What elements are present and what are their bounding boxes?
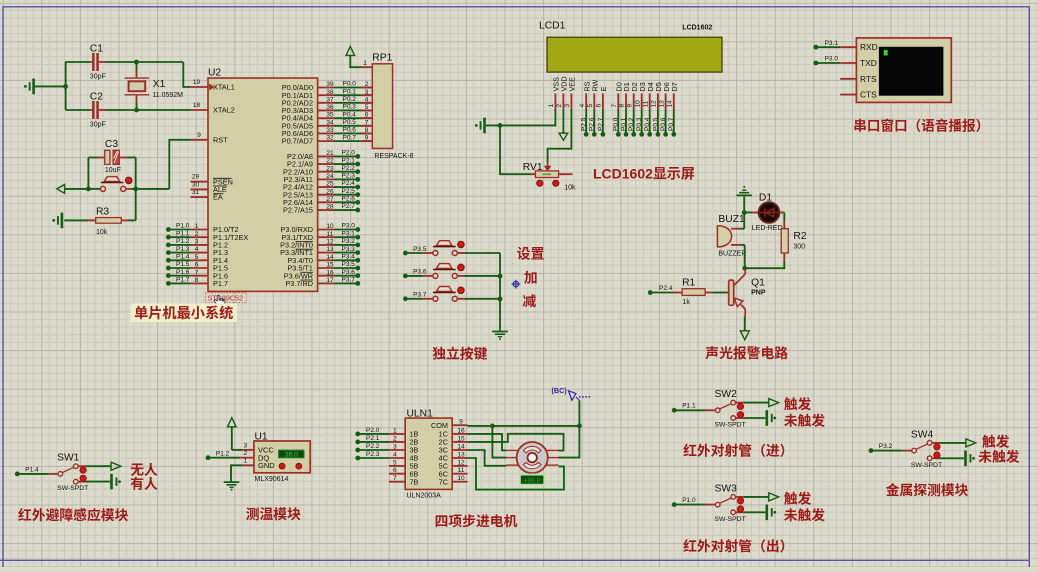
wire 1C bbox=[468, 434, 506, 451]
svg-text:10uF: 10uF bbox=[105, 165, 121, 175]
svg-text:P2.7: P2.7 bbox=[342, 200, 356, 210]
wire P2.2 (ULN input) bbox=[355, 440, 389, 452]
node (XTAL1 junction) bbox=[134, 60, 139, 65]
svg-text:CTS: CTS bbox=[860, 89, 877, 101]
node bbox=[133, 187, 138, 192]
node (XTAL2 junction) bbox=[134, 108, 139, 113]
wire bbox=[137, 62, 191, 87]
wire bbox=[135, 158, 137, 221]
wire 2C bbox=[468, 434, 564, 451]
U2 pin names bbox=[210, 83, 314, 289]
svg-text:P0.7/AD7: P0.7/AD7 bbox=[282, 137, 313, 147]
svg-text:LED-RED: LED-RED bbox=[752, 223, 783, 233]
svg-text:RP1: RP1 bbox=[372, 49, 392, 64]
svg-text:RXD: RXD bbox=[860, 41, 878, 53]
LCD1 display (LCD1602) bbox=[539, 17, 722, 73]
wire P0.3 bbox=[318, 101, 373, 111]
wire VSS to ground bbox=[486, 109, 556, 126]
svg-text:11.0592M: 11.0592M bbox=[152, 90, 183, 100]
switch SW2 (SW-SPDT) bbox=[672, 385, 825, 430]
svg-text:E: E bbox=[599, 87, 609, 92]
wire bbox=[232, 449, 254, 451]
svg-text:P3.5: P3.5 bbox=[413, 243, 427, 253]
wire P3.0 bbox=[318, 220, 361, 232]
wire P1.2 bbox=[166, 235, 208, 247]
pin EA stub bbox=[191, 196, 208, 198]
capacitor C2 bbox=[66, 88, 137, 130]
wire bbox=[191, 86, 208, 88]
wire P2.3 bbox=[318, 170, 361, 182]
wire P0.7 (LCD) bbox=[665, 109, 676, 137]
wire VEE to RV1 wiper bbox=[548, 109, 572, 163]
virtual terminal (serial window) bbox=[856, 38, 951, 103]
power terminal (RP1) bbox=[346, 46, 362, 67]
svg-text:PNP: PNP bbox=[751, 288, 766, 298]
svg-text:300: 300 bbox=[793, 242, 805, 252]
wire P0.4 bbox=[318, 108, 373, 118]
wire P1.1 bbox=[166, 227, 208, 239]
wire P0.7 bbox=[318, 131, 373, 141]
svg-text:R1: R1 bbox=[682, 274, 695, 289]
svg-text:P0.7: P0.7 bbox=[665, 117, 675, 131]
label 金属探测模块 bbox=[886, 479, 969, 499]
svg-text:红外避障感应模块: 红外避障感应模块 bbox=[18, 504, 129, 524]
wire GND (U1) bbox=[231, 465, 254, 481]
wire P2.1 (ULN input) bbox=[355, 432, 389, 444]
svg-text:P3.7: P3.7 bbox=[342, 274, 356, 284]
svg-text:SW-SPDT: SW-SPDT bbox=[715, 419, 746, 429]
wire P1.4 bbox=[166, 251, 208, 263]
svg-text:P2.3: P2.3 bbox=[366, 448, 380, 458]
motor angle display bbox=[520, 474, 545, 485]
label 减 bbox=[523, 290, 537, 310]
label LCD1602显示屏 bbox=[593, 164, 695, 184]
label 红外对射管（进） bbox=[683, 440, 793, 460]
wire P0.6 bbox=[318, 124, 373, 134]
svg-text:D1: D1 bbox=[759, 189, 772, 204]
buzzer BUZ1 bbox=[717, 210, 746, 259]
ground (R3) bbox=[52, 213, 63, 229]
node bbox=[498, 274, 503, 279]
svg-text:P1.4: P1.4 bbox=[25, 463, 39, 473]
terminal (emitter, down arrow) bbox=[740, 317, 749, 340]
svg-text:R2: R2 bbox=[793, 227, 806, 242]
svg-text:P3.0: P3.0 bbox=[825, 53, 839, 63]
power terminal (U1) bbox=[228, 418, 237, 450]
svg-text:未触发: 未触发 bbox=[784, 410, 826, 430]
resistor R3 bbox=[64, 203, 136, 238]
svg-text:P2.7: P2.7 bbox=[594, 117, 604, 131]
wire P1.5 bbox=[166, 258, 208, 270]
svg-text:ULN2003A: ULN2003A bbox=[407, 491, 442, 501]
svg-text:19: 19 bbox=[193, 76, 201, 86]
ULN1 input pins bbox=[389, 424, 419, 487]
wire P3.1 (RXD) bbox=[813, 37, 856, 50]
svg-text:P1.7: P1.7 bbox=[213, 279, 228, 289]
svg-text:SW4: SW4 bbox=[911, 425, 934, 440]
svg-text:串口窗口（语音播报）: 串口窗口（语音播报） bbox=[853, 115, 989, 135]
switch SW4 (SW-SPDT) bbox=[869, 425, 1020, 469]
svg-text:P1.0: P1.0 bbox=[682, 494, 696, 504]
svg-text:7: 7 bbox=[393, 472, 397, 482]
wire P2.0 (ULN input) bbox=[355, 424, 389, 436]
svg-text:X1: X1 bbox=[153, 75, 166, 90]
label 串口窗口（语音播报） bbox=[853, 115, 989, 135]
svg-text:+88.8: +88.8 bbox=[524, 474, 541, 484]
svg-text:红外对射管（进）: 红外对射管（进） bbox=[683, 440, 793, 460]
svg-text:6: 6 bbox=[593, 104, 603, 108]
label STC89C52 bbox=[206, 293, 247, 304]
push button (reset) bbox=[88, 177, 135, 192]
node bbox=[498, 297, 503, 302]
svg-text:XTAL1: XTAL1 bbox=[213, 83, 235, 93]
wire P3.2 bbox=[318, 235, 361, 247]
wire P1.0 bbox=[166, 220, 208, 232]
svg-text:金属探测模块: 金属探测模块 bbox=[886, 479, 969, 499]
wire P2.5 (LCD) bbox=[578, 109, 589, 137]
node bbox=[577, 424, 582, 429]
wire P0.5 bbox=[318, 116, 373, 126]
svg-text:加: 加 bbox=[524, 266, 538, 286]
RP1 pin stubs bbox=[362, 88, 373, 142]
label 声光报警电路 bbox=[705, 342, 788, 362]
LED D1 bbox=[744, 189, 784, 234]
svg-text:LCD1: LCD1 bbox=[539, 17, 566, 32]
svg-text:P0.7: P0.7 bbox=[343, 131, 357, 141]
svg-text:TXD: TXD bbox=[860, 57, 877, 69]
wire P0.2 bbox=[318, 93, 373, 103]
label 单片机最小系统 bbox=[131, 303, 238, 323]
svg-text:10k: 10k bbox=[96, 227, 108, 237]
wire P3.4 bbox=[318, 251, 361, 263]
svg-text:28: 28 bbox=[326, 201, 334, 211]
wire P0.1 bbox=[318, 85, 373, 95]
ground (crystal section) bbox=[24, 79, 66, 95]
node bbox=[742, 266, 747, 271]
terminal (reset arrow) bbox=[57, 185, 89, 194]
wire P2.2 bbox=[318, 162, 361, 174]
svg-text:减: 减 bbox=[523, 290, 537, 310]
svg-text:P2.4: P2.4 bbox=[659, 282, 673, 292]
svg-text:9: 9 bbox=[197, 129, 201, 139]
wire P2.6 bbox=[318, 193, 361, 205]
svg-text:D7: D7 bbox=[670, 82, 680, 91]
node bbox=[490, 424, 495, 429]
origin marker bbox=[512, 280, 521, 289]
U2 pin numbers (left) bbox=[192, 76, 201, 196]
wire P2.4 bbox=[648, 282, 674, 295]
svg-text:GND: GND bbox=[258, 460, 275, 471]
wire bbox=[87, 158, 89, 189]
svg-text:P1.1: P1.1 bbox=[682, 400, 696, 410]
wire 4C bbox=[468, 458, 564, 490]
pin PSEN stub bbox=[191, 181, 208, 183]
wire P2.7 bbox=[318, 200, 361, 212]
resistor R2 bbox=[781, 221, 807, 261]
pin CTS stub bbox=[840, 94, 856, 96]
svg-text:30pF: 30pF bbox=[90, 72, 106, 82]
label RESPACK-8 bbox=[374, 151, 413, 161]
svg-text:MLX90614: MLX90614 bbox=[255, 474, 289, 484]
switch SW3 (SW-SPDT) bbox=[672, 479, 825, 524]
wire (COM to left center tap) bbox=[492, 426, 506, 458]
svg-text:ULN1: ULN1 bbox=[407, 405, 434, 420]
svg-text:C1: C1 bbox=[90, 40, 103, 55]
label 红外对射管（出） bbox=[683, 535, 793, 555]
wire P3.6 bbox=[318, 266, 361, 278]
driver ULN1 (ULN2003A) bbox=[405, 405, 452, 501]
svg-text:有人: 有人 bbox=[130, 473, 158, 493]
cursor (hand) bbox=[214, 295, 225, 307]
wire P0.1 (LCD) bbox=[617, 109, 628, 137]
label 测温模块 bbox=[246, 503, 301, 523]
node (C1-C2 left junction) bbox=[63, 84, 68, 89]
wire P0.4 (LCD) bbox=[641, 109, 652, 137]
wire bbox=[783, 213, 785, 222]
svg-text:SW1: SW1 bbox=[57, 449, 80, 464]
capacitor C3 bbox=[88, 135, 135, 175]
svg-text:8: 8 bbox=[195, 274, 199, 284]
crystal X1 bbox=[125, 62, 184, 110]
wire (COM to right center tap) bbox=[559, 426, 580, 458]
ULN1 output pins bbox=[431, 416, 468, 488]
svg-text:RST: RST bbox=[213, 135, 228, 145]
push button P3.7 bbox=[403, 287, 500, 302]
svg-text:BUZ1: BUZ1 bbox=[718, 210, 745, 225]
node bbox=[498, 123, 503, 128]
ground (buttons) bbox=[492, 331, 508, 340]
svg-text:30pF: 30pF bbox=[90, 120, 106, 130]
svg-text:SW2: SW2 bbox=[715, 385, 738, 400]
svg-text:18: 18 bbox=[193, 99, 201, 109]
push button P3.6 bbox=[403, 264, 500, 279]
wire P0.0 (LCD) bbox=[610, 109, 621, 137]
svg-text:14: 14 bbox=[664, 100, 674, 108]
wire P2.4 bbox=[318, 177, 361, 189]
wire COM bbox=[468, 425, 580, 427]
wire bbox=[65, 62, 67, 111]
LCD pin numbers bbox=[545, 100, 673, 108]
svg-text:VEE: VEE bbox=[568, 77, 578, 92]
wire P3.7 bbox=[318, 274, 361, 286]
svg-text:31: 31 bbox=[192, 186, 200, 196]
wire P2.5 bbox=[318, 185, 361, 197]
svg-text:1: 1 bbox=[363, 57, 367, 67]
svg-text:1: 1 bbox=[243, 455, 247, 465]
svg-text:7C: 7C bbox=[439, 477, 448, 487]
svg-text:P1.7: P1.7 bbox=[176, 274, 190, 284]
wire bbox=[500, 125, 535, 174]
wire P0.3 (LCD) bbox=[633, 109, 644, 137]
wire (reset to RST) bbox=[136, 140, 208, 189]
stepper motor bbox=[506, 442, 559, 473]
svg-text:10: 10 bbox=[457, 472, 465, 482]
svg-text:U2: U2 bbox=[208, 64, 221, 79]
wire P0.5 (LCD) bbox=[649, 109, 660, 137]
label 独立按键 bbox=[432, 343, 487, 363]
wire bbox=[745, 261, 785, 269]
svg-text:RTS: RTS bbox=[860, 73, 877, 85]
svg-text:(BC): (BC) bbox=[552, 386, 568, 396]
potentiometer RV1 bbox=[523, 158, 576, 193]
svg-text:声光报警电路: 声光报警电路 bbox=[705, 342, 788, 362]
wire P1.3 bbox=[166, 243, 208, 255]
svg-text:Q1: Q1 bbox=[751, 274, 765, 289]
wire P3.3 bbox=[318, 243, 361, 255]
svg-text:BUZZER: BUZZER bbox=[718, 249, 746, 259]
svg-text:3: 3 bbox=[561, 104, 571, 108]
ground (U1) bbox=[224, 481, 240, 490]
wire P1.7 bbox=[166, 274, 208, 286]
svg-text:设置: 设置 bbox=[517, 243, 545, 263]
wire P0.6 (LCD) bbox=[657, 109, 668, 137]
svg-text:LCD1602显示屏: LCD1602显示屏 bbox=[593, 164, 695, 184]
wire bbox=[137, 109, 209, 111]
pin RTS stub bbox=[840, 78, 856, 80]
svg-text:红外对射管（出）: 红外对射管（出） bbox=[683, 535, 793, 555]
ground (LCD) bbox=[475, 118, 486, 134]
svg-text:R3: R3 bbox=[96, 203, 109, 218]
svg-text:SW-SPDT: SW-SPDT bbox=[911, 459, 942, 469]
wire (button common) bbox=[499, 253, 501, 331]
pin ALE stub bbox=[191, 188, 208, 190]
svg-text:32: 32 bbox=[326, 132, 334, 142]
wire P2.6 (LCD) bbox=[586, 109, 597, 137]
wire bbox=[743, 213, 745, 229]
switch SW1 (SW-SPDT) bbox=[15, 449, 158, 493]
svg-text:EA: EA bbox=[213, 193, 223, 203]
wire P0.0 bbox=[318, 78, 373, 88]
svg-text:17: 17 bbox=[326, 274, 334, 284]
svg-text:XTAL2: XTAL2 bbox=[213, 106, 235, 116]
svg-text:RESPACK-8: RESPACK-8 bbox=[374, 151, 413, 161]
node bbox=[86, 187, 91, 192]
wire P2.1 bbox=[318, 154, 361, 166]
temperature sensor U1 (MLX90614) bbox=[243, 428, 310, 485]
push button P3.5 bbox=[403, 241, 500, 256]
terminal (BC) bbox=[552, 386, 592, 426]
power rail (alarm, inverted ground symbol) bbox=[736, 186, 752, 213]
resistor pack RP1 bbox=[362, 49, 393, 149]
svg-text:C2: C2 bbox=[90, 88, 103, 103]
capacitor C1 bbox=[66, 40, 137, 82]
svg-text:LCD1602: LCD1602 bbox=[682, 23, 712, 33]
svg-text:36.0: 36.0 bbox=[285, 449, 298, 459]
LCD pin names and stubs bbox=[552, 76, 680, 109]
wire 3C bbox=[468, 450, 506, 466]
svg-text:10k: 10k bbox=[564, 183, 576, 193]
wire P1.2 bbox=[206, 447, 254, 460]
power terminal VDD (down arrow) bbox=[559, 109, 568, 140]
svg-text:单片机最小系统: 单片机最小系统 bbox=[134, 303, 233, 323]
wire P3.1 bbox=[318, 227, 361, 239]
resistor R1 bbox=[674, 274, 726, 308]
label 加 bbox=[524, 266, 538, 286]
svg-text:P3.6: P3.6 bbox=[413, 266, 427, 276]
wire P2.3 (ULN input) bbox=[355, 448, 389, 460]
svg-text:P3.2: P3.2 bbox=[879, 440, 893, 450]
svg-text:P2.7/A15: P2.7/A15 bbox=[283, 206, 313, 216]
wire P3.5 bbox=[318, 258, 361, 270]
svg-text:C3: C3 bbox=[105, 135, 118, 150]
svg-text:测温模块: 测温模块 bbox=[246, 503, 301, 523]
svg-text:1k: 1k bbox=[683, 297, 691, 307]
svg-text:SW-SPDT: SW-SPDT bbox=[57, 482, 88, 492]
svg-text:未触发: 未触发 bbox=[978, 446, 1020, 466]
svg-text:7B: 7B bbox=[410, 477, 419, 487]
svg-text:P3.7: P3.7 bbox=[413, 289, 427, 299]
svg-text:独立按键: 独立按键 bbox=[432, 343, 487, 363]
svg-text:SW3: SW3 bbox=[715, 479, 738, 494]
svg-text:四项步进电机: 四项步进电机 bbox=[435, 510, 518, 530]
wire P0.2 (LCD) bbox=[625, 109, 636, 137]
transistor Q1 (PNP) bbox=[727, 268, 766, 316]
wire P1.6 bbox=[166, 266, 208, 278]
label 设置 bbox=[517, 243, 545, 263]
wire P2.7 (LCD) bbox=[594, 109, 605, 137]
wire P3.0 (TXD) bbox=[813, 53, 856, 66]
svg-text:P3.7/RD: P3.7/RD bbox=[285, 279, 313, 289]
IC U2 (STC89C52 MCU) bbox=[208, 64, 318, 292]
wire P2.0 bbox=[318, 147, 361, 159]
node bbox=[742, 210, 747, 215]
wire bbox=[744, 245, 746, 268]
label 四项步进电机 bbox=[435, 510, 518, 530]
svg-text:P1.2: P1.2 bbox=[216, 447, 230, 457]
svg-text:未触发: 未触发 bbox=[784, 504, 826, 524]
svg-text:P3.1: P3.1 bbox=[825, 37, 839, 47]
label 红外避障感应模块 bbox=[18, 504, 129, 524]
svg-text:SW-SPDT: SW-SPDT bbox=[715, 513, 746, 523]
